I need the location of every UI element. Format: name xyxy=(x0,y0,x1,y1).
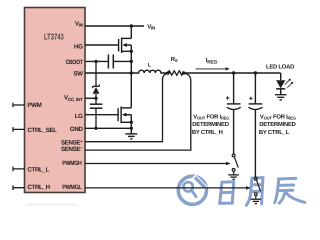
polarity plus COUT1 xyxy=(226,96,230,100)
LED emission arrows xyxy=(285,80,292,88)
LED D2 xyxy=(276,80,285,88)
svg-text:CTRL_H: CTRL_H xyxy=(27,184,50,191)
resistor RS current sense xyxy=(168,71,183,75)
wire CTRL_L input stub xyxy=(13,167,25,172)
transistor M1 top NMOS xyxy=(119,26,132,73)
wire SW pin to switch node xyxy=(85,72,136,74)
annotation VOUT FOR IREG block 2 xyxy=(259,114,296,137)
capacitor CBOOT bootstrap cap xyxy=(108,55,113,69)
node CBOOT-SW junction dot xyxy=(130,60,133,63)
ground below M2 xyxy=(125,134,137,139)
wire output rail after RS xyxy=(184,72,281,74)
node output cap1 junction dot xyxy=(232,71,235,74)
watermark char YUE xyxy=(247,178,263,206)
diode D1 bootstrap schottky xyxy=(93,61,100,98)
svg-text:LED LOAD: LED LOAD xyxy=(266,64,294,71)
node VCC_INT junction dot xyxy=(94,97,97,100)
watermark char CHEN xyxy=(275,178,305,203)
svg-text:GND: GND xyxy=(70,126,84,133)
wire CTRL_SEL input stub xyxy=(13,127,25,132)
wire LED branch xyxy=(280,73,282,80)
wire VCC cap leads xyxy=(95,98,97,128)
svg-text:CTRL_SEL: CTRL_SEL xyxy=(27,127,57,134)
svg-text:SENSE−: SENSE− xyxy=(61,146,83,154)
ground below S2 xyxy=(251,199,262,203)
switch S2 controlled by PWMGL xyxy=(254,177,260,198)
capacitor COUT1 polarized xyxy=(227,73,241,154)
ground below LED xyxy=(275,95,287,100)
annotation VOUT FOR IREG block 1 xyxy=(192,114,229,137)
node M1 source junction dot xyxy=(130,50,133,53)
svg-text:DETERMINED: DETERMINED xyxy=(192,121,228,128)
wire CTRL_H input stub xyxy=(13,185,25,190)
inductor L xyxy=(136,70,168,73)
wire GND pin to M2 source xyxy=(85,127,131,129)
wire bootstrap cap to SW node xyxy=(113,60,131,62)
wire PWMGH control line xyxy=(85,163,227,165)
node output cap2 junction dot xyxy=(254,71,257,74)
wire SENSE- kelvin connection xyxy=(85,73,191,150)
svg-text:SW: SW xyxy=(73,70,83,77)
transistor M1 body arrow xyxy=(122,43,127,47)
wire HG to M1 gate xyxy=(85,44,118,46)
wire PWM input stub xyxy=(13,103,25,108)
node SW junction dot xyxy=(130,71,133,74)
node VIN junction dot xyxy=(130,24,133,27)
svg-text:HG: HG xyxy=(74,43,83,50)
capacitor COUT2 polarized xyxy=(248,73,262,177)
polarity plus COUT2 xyxy=(249,97,253,101)
wire SENSE+ kelvin connection xyxy=(85,73,168,141)
node IREG current arrow annotation xyxy=(196,57,230,70)
svg-text:PWMGL: PWMGL xyxy=(62,184,82,191)
wire LG to M2 gate xyxy=(85,114,118,116)
svg-text:PWMGH: PWMGH xyxy=(62,160,82,167)
wire VCC_INT pin xyxy=(85,97,96,99)
capacitor C_VCC bypass xyxy=(90,104,103,108)
svg-text:LG: LG xyxy=(75,113,83,120)
svg-text:LT3743: LT3743 xyxy=(44,31,64,41)
node M2 source junction dot xyxy=(130,121,133,124)
svg-text:BY CTRL_H: BY CTRL_H xyxy=(192,129,223,136)
svg-text:DETERMINED: DETERMINED xyxy=(259,121,295,128)
faint page artifact line bottom-left xyxy=(26,204,77,206)
wire PWMGL control line xyxy=(85,187,247,189)
transistor M2 bottom NMOS xyxy=(118,73,131,134)
svg-text:BY CTRL_L: BY CTRL_L xyxy=(259,129,290,136)
svg-text:PWM: PWM xyxy=(27,102,41,109)
node CBOOT diode tap dot xyxy=(94,60,97,63)
node RS left junction dot xyxy=(166,71,169,74)
svg-text:CTRL_L: CTRL_L xyxy=(27,166,49,173)
ground below S1 xyxy=(228,175,239,179)
node RS right junction dot xyxy=(182,71,185,74)
transistor M2 body arrow xyxy=(122,113,127,117)
IC U1 LT3743 controller body xyxy=(25,8,86,193)
node VCC cap to ground rail dot xyxy=(94,127,97,130)
watermark logo ring xyxy=(178,176,305,205)
wire VIN rail from pin to VIN terminal xyxy=(85,25,144,27)
svg-text:CBOOT: CBOOT xyxy=(66,59,83,66)
switch S1 controlled by PWMGH xyxy=(232,154,238,175)
node GND junction dot xyxy=(130,127,133,130)
wire CBOOT to bootstrap capacitor xyxy=(85,60,108,62)
watermark char RI xyxy=(220,182,234,204)
